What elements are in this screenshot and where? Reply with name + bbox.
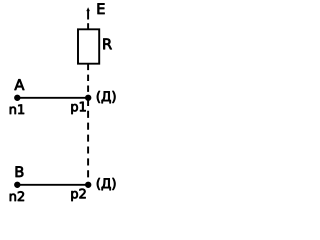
resistor R body xyxy=(78,29,99,63)
wire: branch A from node n1 to node p1, with junction dots xyxy=(15,95,91,100)
node p1 sensor label (Д) xyxy=(97,91,115,103)
node B label xyxy=(16,166,24,177)
node p2 label xyxy=(71,189,85,201)
figure background xyxy=(0,0,124,209)
wire: dash stub from resistor top toward E xyxy=(87,23,89,29)
circuit schematic: source E with resistor R connected via dashed link to branch A (n1-p1) and branch B (n2-p2), sensor (Д) nodes xyxy=(0,0,124,209)
node E label xyxy=(98,3,105,14)
node A label xyxy=(15,79,25,90)
wire: E lead arrow stem xyxy=(87,11,89,20)
node p1 label xyxy=(71,102,85,114)
node n2 label xyxy=(10,191,24,201)
node p2 sensor label (Д) xyxy=(97,178,115,190)
wire: dashed lead from resistor bottom to node p1 xyxy=(87,64,89,96)
arrowhead of E source lead arrow xyxy=(86,7,90,11)
node n1 label xyxy=(10,105,24,114)
wire: branch B from node n2 to node p2, with junction dots xyxy=(15,182,91,187)
resistor R value label xyxy=(103,39,111,50)
wire: dashed link from node p1 to node p2 xyxy=(87,99,89,182)
